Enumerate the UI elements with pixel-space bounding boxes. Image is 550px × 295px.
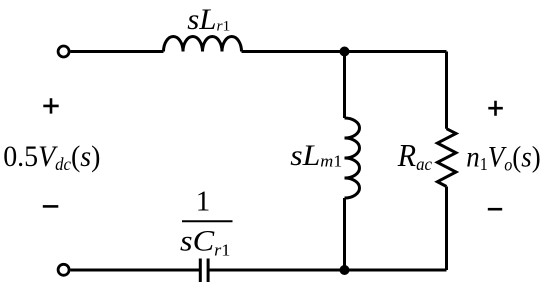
svg-text:n1Vo(s): n1Vo(s): [466, 141, 540, 174]
svg-text:1: 1: [196, 186, 211, 218]
svg-text:0.5Vdc(s): 0.5Vdc(s): [3, 140, 100, 174]
